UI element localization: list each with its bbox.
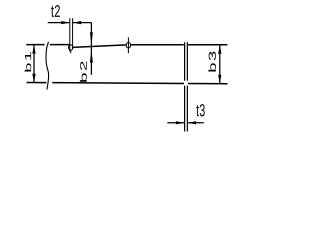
arrowhead t3 right (points left) [188, 121, 196, 124]
centerline tail below circle 1 [70, 50, 72, 53]
sheet double line left [184, 42, 186, 131]
label b3 [208, 52, 216, 72]
label t3 [196, 104, 204, 116]
top edge right segment [131, 44, 228, 46]
label t2 [51, 5, 60, 17]
dimension t2 line [48, 22, 92, 24]
arrowhead t2 left (points right) [61, 21, 70, 24]
label b1 [25, 52, 32, 72]
sheet double line right [186, 42, 188, 131]
bottom edge [27, 83, 228, 84]
dimension t2 extension line right [72, 18, 74, 49]
arrowhead b2 down above edge [90, 32, 93, 45]
dimension b1 line [33, 45, 35, 83]
arrowhead b2 up below edge [90, 49, 93, 63]
dimension t2 extension line left [69, 18, 71, 51]
wire circle 2 on top edge [126, 43, 130, 48]
arrowhead b3 up [218, 45, 221, 54]
dimension b2 line [90, 23, 92, 75]
arrowhead b1 down [32, 74, 35, 83]
label b2 [80, 62, 87, 82]
arrowhead t2 right (points left) [73, 21, 82, 24]
dimension b3 line [219, 45, 221, 84]
top edge sloped middle segment [73, 45, 126, 47]
top edge left segment [26, 44, 69, 46]
arrowhead b3 down [218, 75, 221, 84]
wire circle 1 on top edge [69, 45, 73, 50]
dimension t3 line [167, 122, 204, 124]
centerline of circle 2 [127, 37, 129, 53]
break line S-curve [46, 42, 49, 90]
arrowhead t3 left (points right) [176, 121, 184, 124]
arrowhead b1 up [32, 45, 35, 54]
